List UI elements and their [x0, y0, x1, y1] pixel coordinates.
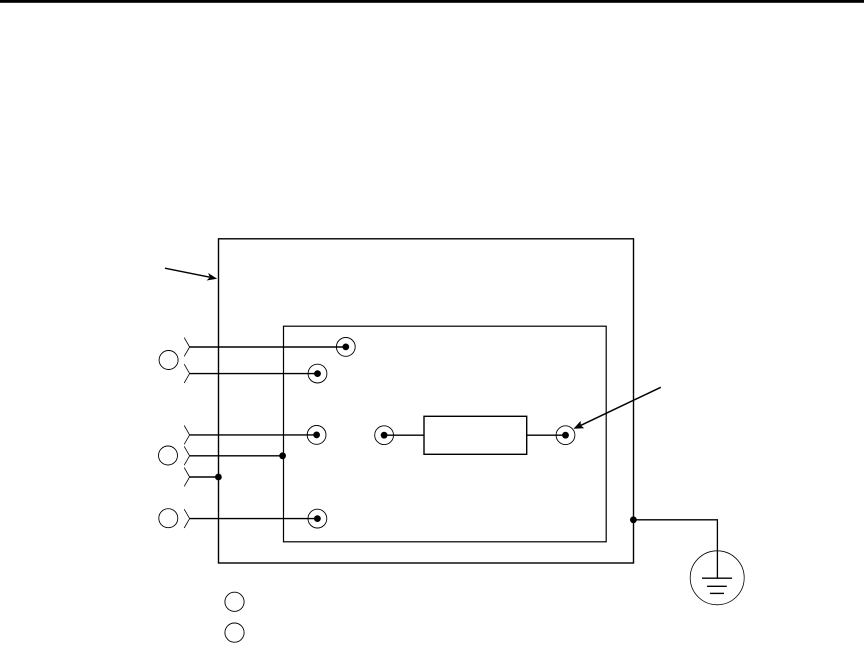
outer enclosure box	[219, 239, 634, 563]
wire 2	[190, 373, 318, 375]
callout arrow to terminal 6	[574, 387, 661, 429]
wire resistor right lead	[527, 434, 566, 436]
connector fork 5	[184, 468, 189, 487]
callout arrow to outer box	[165, 268, 217, 280]
inner module box	[284, 326, 607, 542]
callout circle 5 (bottom list item 2)	[225, 623, 244, 642]
resistor body	[424, 416, 527, 454]
terminal 4	[308, 509, 327, 528]
wire 5	[190, 476, 219, 478]
connector fork 4	[184, 446, 189, 465]
wire 1	[190, 346, 346, 348]
wire 4	[190, 455, 283, 457]
wire 3	[190, 434, 317, 436]
callout circle 4 (bottom list item 1)	[225, 592, 244, 611]
wire resistor left lead	[384, 434, 424, 436]
terminal 5 (resistor left)	[375, 426, 394, 445]
terminal 3	[307, 426, 326, 445]
connector fork 1	[184, 338, 189, 357]
node on outer box right edge	[630, 516, 637, 523]
node on outer box left edge	[215, 474, 222, 481]
header rule	[0, 0, 864, 3]
terminal 1	[336, 338, 355, 357]
callout circle 1 (top group)	[159, 351, 178, 370]
connector fork 2	[184, 364, 189, 383]
callout circle 3 (bottom group)	[159, 509, 178, 528]
protective earth ground symbol	[690, 551, 744, 605]
wire 6	[190, 518, 318, 520]
node on inner box left edge	[279, 452, 286, 459]
callout circle 2 (middle group)	[159, 446, 178, 465]
connector fork 3	[184, 426, 189, 445]
ground wire	[633, 520, 717, 578]
connector fork 6	[184, 509, 189, 528]
terminal 2	[308, 364, 327, 383]
terminal 6 (resistor right)	[556, 426, 575, 445]
